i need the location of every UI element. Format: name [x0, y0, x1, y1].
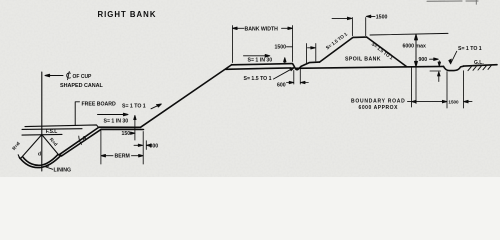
bank level line left [25, 125, 98, 127]
svg-text:1500: 1500 [376, 14, 388, 20]
dim BERM [101, 154, 143, 157]
up arrow [284, 58, 286, 64]
svg-text:FREE BOARD: FREE BOARD [82, 101, 117, 107]
arrow 150 [131, 132, 135, 134]
spoil top ext left [351, 18, 353, 36]
ext short 300 [145, 141, 147, 150]
cropped artifact top edge [427, 0, 478, 4]
spoil bank left slope [320, 37, 354, 62]
arc end tick [18, 155, 20, 159]
spoil bank top [353, 36, 367, 38]
svg-text:BOUNDARY ROAD: BOUNDARY ROAD [351, 99, 405, 105]
ground hatching [468, 66, 491, 71]
second level line left [22, 128, 82, 131]
bank right closure + toe drain dip [293, 62, 320, 70]
GL underline [473, 64, 485, 67]
dim 1500 top [366, 15, 375, 18]
arrows 300 [134, 144, 143, 146]
leader right [449, 51, 457, 64]
berm slope arrow [98, 113, 129, 116]
main 1:1 slope upper line [141, 65, 232, 128]
GL line right [464, 65, 498, 66]
lining slope outer line / berm bottom [62, 129, 144, 156]
theta arc [79, 136, 82, 144]
svg-text:SPOIL BANK: SPOIL BANK [345, 56, 381, 62]
svg-text:S= 1 IN 30: S= 1 IN 30 [248, 58, 273, 64]
svg-text:900: 900 [419, 57, 428, 63]
spoil top ext right [365, 18, 367, 36]
svg-text:150: 150 [122, 131, 131, 137]
svg-text:S= 1 TO 1: S= 1 TO 1 [458, 46, 482, 52]
svg-text:1500: 1500 [448, 100, 459, 105]
ext line 150 with up arrow [134, 115, 136, 140]
freeboard bracket [75, 102, 79, 125]
lining leader [46, 166, 53, 169]
spoil bank right slope [367, 37, 407, 67]
svg-text:SHAPED CANAL: SHAPED CANAL [60, 83, 104, 89]
svg-text:600: 600 [277, 82, 286, 88]
900 tick [430, 70, 441, 72]
radius R=d left [21, 135, 42, 159]
berm ext left [100, 131, 102, 164]
bank top lower line [226, 68, 291, 69]
svg-text:S= 1 TO 1: S= 1 TO 1 [122, 103, 146, 109]
svg-text:RIGHT BANK: RIGHT BANK [98, 10, 157, 19]
FSL line [22, 133, 62, 136]
centerline leader arrow [45, 74, 63, 77]
svg-text:F.S.L: F.S.L [46, 129, 58, 135]
svg-text:BANK WIDTH: BANK WIDTH [245, 26, 279, 32]
ext right dip left [446, 72, 448, 109]
bank top upper line [232, 64, 293, 65]
svg-text:OF CUP: OF CUP [73, 74, 93, 80]
cup outer arc (lining) [20, 155, 62, 167]
dim arrow into left ext [332, 17, 352, 20]
arrow 900 [430, 58, 439, 61]
svg-text:6000 max: 6000 max [403, 44, 426, 50]
dim boundary road [412, 100, 448, 103]
lining slope inner line [59, 127, 141, 155]
6000 ref line [370, 33, 448, 35]
svg-text:1500: 1500 [275, 44, 287, 50]
bank top slope arrow [244, 55, 270, 58]
900 up arrow [438, 72, 441, 82]
arrow gap [308, 47, 316, 49]
berm ext right [142, 132, 144, 164]
dim 6000 max vertical [415, 34, 418, 66]
svg-text:d: d [38, 152, 41, 158]
radius R=d right [42, 135, 60, 156]
boundary ext left [411, 67, 413, 107]
svg-text:S= 1 IN 30: S= 1 IN 30 [104, 118, 129, 124]
svg-text:S= 1.5 TO 1: S= 1.5 TO 1 [244, 76, 272, 82]
borrow drain right dip [444, 66, 464, 70]
svg-text:LINING: LINING [54, 168, 72, 174]
boundary ext via 6000 line [415, 67, 417, 104]
ext 315.8 [315, 44, 317, 62]
svg-text:6000 APPROX: 6000 APPROX [359, 105, 399, 111]
bank width ext right [292, 26, 294, 62]
centerline of cup [41, 72, 43, 171]
900 dim down arrow [438, 61, 441, 66]
ext 306.5 [306, 44, 308, 64]
svg-text:BERM: BERM [115, 154, 130, 160]
ext right dip right [463, 71, 465, 108]
cup inner arc [23, 154, 59, 165]
ground line NSL [296, 66, 444, 68]
bank width ext left [232, 26, 234, 63]
label CL OF CUP [67, 72, 92, 81]
dim BANK WIDTH [233, 27, 293, 30]
leader S=1 TO 1 [151, 104, 161, 109]
